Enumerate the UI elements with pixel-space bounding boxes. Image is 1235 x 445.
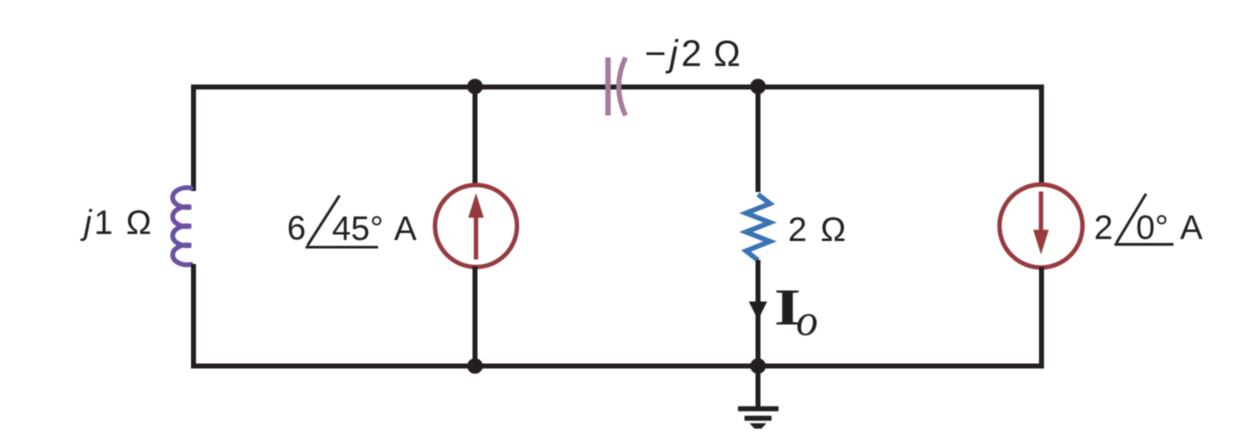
wire branch2 lower: [756, 260, 761, 366]
current source I1 arrow up: [474, 214, 478, 260]
ground bar 2: [745, 416, 772, 421]
ground bar 3: [750, 423, 767, 428]
svg-text:Ω: Ω: [714, 33, 741, 74]
svg-text:A: A: [394, 210, 417, 248]
capacitor C1 right plate (curved): [619, 58, 626, 116]
node dot bottom junction D: [750, 358, 766, 374]
wire left vertical upper segment: [191, 85, 196, 191]
angle symbol underline for 6/45: [306, 246, 379, 249]
current source I2 circle: [1000, 185, 1083, 268]
svg-text:2: 2: [1094, 209, 1113, 247]
node dot top junction A: [467, 79, 483, 95]
svg-text:Ω: Ω: [821, 211, 846, 249]
wire branch1 upper: [473, 87, 478, 186]
wire top horizontal: [191, 85, 1044, 90]
ground stem: [756, 366, 761, 409]
wire right vertical upper: [1039, 85, 1044, 186]
svg-text:6: 6: [287, 210, 306, 248]
svg-text:−j2: −j2: [645, 33, 706, 74]
svg-text:A: A: [1180, 209, 1203, 247]
svg-text:o: o: [796, 296, 818, 345]
inductor L1 j1 ohm coil: [173, 188, 191, 265]
arrowhead Io current direction: [749, 302, 767, 321]
svg-text:2: 2: [788, 211, 807, 249]
resistor R1 2 ohm zigzag: [746, 194, 770, 260]
wire left vertical lower segment: [191, 264, 196, 368]
node dot top junction B: [750, 79, 766, 95]
wire branch2 upper: [756, 87, 761, 192]
wire branch1 lower: [473, 267, 478, 367]
svg-text:0°: 0°: [1136, 209, 1169, 247]
ground bar 1: [738, 406, 779, 411]
angle symbol slash for 6/45: [308, 196, 340, 246]
angle symbol slash for 2/0: [1117, 194, 1147, 243]
svg-text:1: 1: [94, 204, 113, 242]
svg-text:45°: 45°: [332, 210, 383, 248]
wire bottom horizontal: [191, 364, 1044, 369]
wire right vertical lower: [1039, 267, 1044, 368]
capacitor C1 left plate (straight): [605, 58, 610, 116]
current source I2 arrow down: [1039, 192, 1043, 238]
angle symbol underline for 2/0: [1115, 243, 1174, 246]
svg-text:j: j: [80, 204, 93, 242]
current source I1 circle: [435, 185, 517, 267]
svg-text:Ω: Ω: [126, 204, 151, 242]
node dot bottom junction C: [467, 358, 483, 374]
